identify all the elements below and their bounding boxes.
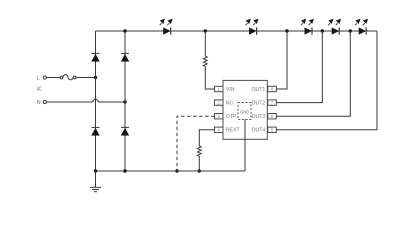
svg-text:OTP: OTP [226,114,237,120]
diode D2 (upper-right) [121,53,129,61]
svg-text:OUT4: OUT4 [251,128,265,134]
wire OUT2 riser [276,31,322,103]
wire OUT1 riser [276,31,287,89]
junction right leg bottom [123,169,126,172]
wire OUT4 riser [276,31,377,130]
LED D9 [355,19,368,35]
pin label OUT1 [251,87,265,93]
wire L terminal to fuse [46,77,60,79]
pin 6 box [268,114,277,119]
pin 2 box [215,100,224,105]
ground [90,171,101,192]
LED D8 [328,19,341,35]
junction OUT1 node [285,29,288,32]
junction L node [94,76,97,79]
pin 8 box [268,86,277,91]
terminal N [43,100,46,103]
wire bridge left leg [95,31,97,171]
pin 3 box [215,114,224,119]
svg-text:OUT2: OUT2 [251,101,265,107]
junction OUT2 node [321,29,324,32]
junction top of right leg [123,29,126,32]
wire bridge right leg [124,31,126,171]
pin 7 box [268,100,277,105]
svg-text:REXT: REXT [226,128,241,134]
svg-text:VIN: VIN [226,87,235,93]
junction VIN tap node [204,29,207,32]
pin label VIN [226,87,235,93]
svg-text:L: L [37,75,40,81]
wire N terminal to bridge right leg (hop over left leg) [46,101,92,103]
diode D1 (upper-left) [92,53,100,61]
resistor R2 (REXT) [197,146,201,156]
label AC [37,87,42,93]
wire bottom ground rail [96,170,246,172]
wire fuse to bridge left leg [76,77,96,79]
pin label REXT [226,128,241,134]
junction OUT3 node [349,29,352,32]
pin label OUT3 [251,114,265,120]
junction OTP-ground [175,169,178,172]
pin label OUT4 [251,128,265,134]
terminal L [43,76,46,79]
pin 4 box [215,127,224,132]
junction R2-ground [198,169,201,172]
diode D3 (lower-left) [92,127,100,135]
LED D5 [160,19,173,35]
pin 1 box [215,86,224,91]
diode D4 (lower-right) [121,127,129,135]
pin label OUT2 [251,101,265,107]
wire OTP dashed to ground rail [177,116,215,171]
wire GND pad to ground rail [244,120,246,172]
LED D6 [246,19,259,35]
svg-text:GND: GND [240,110,249,116]
label L [37,75,40,81]
exposed pad GND (dashed) [238,103,251,120]
pin label NC [226,101,234,107]
wire top positive rail [96,30,378,32]
op-amp U1 body [223,80,267,139]
svg-text:NC: NC [226,101,234,107]
wire VIN tap down [204,31,206,56]
wire R1 to VIN pin [205,66,214,89]
label N [37,100,41,106]
wire REXT pin to resistor [199,130,214,146]
pin label OTP [226,114,237,120]
LED D7 [301,19,314,35]
svg-text:AC: AC [37,87,42,93]
junction left leg bottom [94,169,97,172]
svg-text:N: N [37,100,41,106]
pin 5 box [268,127,277,132]
wire R2 to ground rail [198,156,200,171]
fuse F1 [60,76,63,79]
resistor R1 (VIN series) [203,56,207,66]
svg-text:OUT3: OUT3 [251,114,265,120]
svg-text:OUT1: OUT1 [251,87,265,93]
wire OUT3 riser [276,31,350,116]
junction N node [123,100,126,103]
